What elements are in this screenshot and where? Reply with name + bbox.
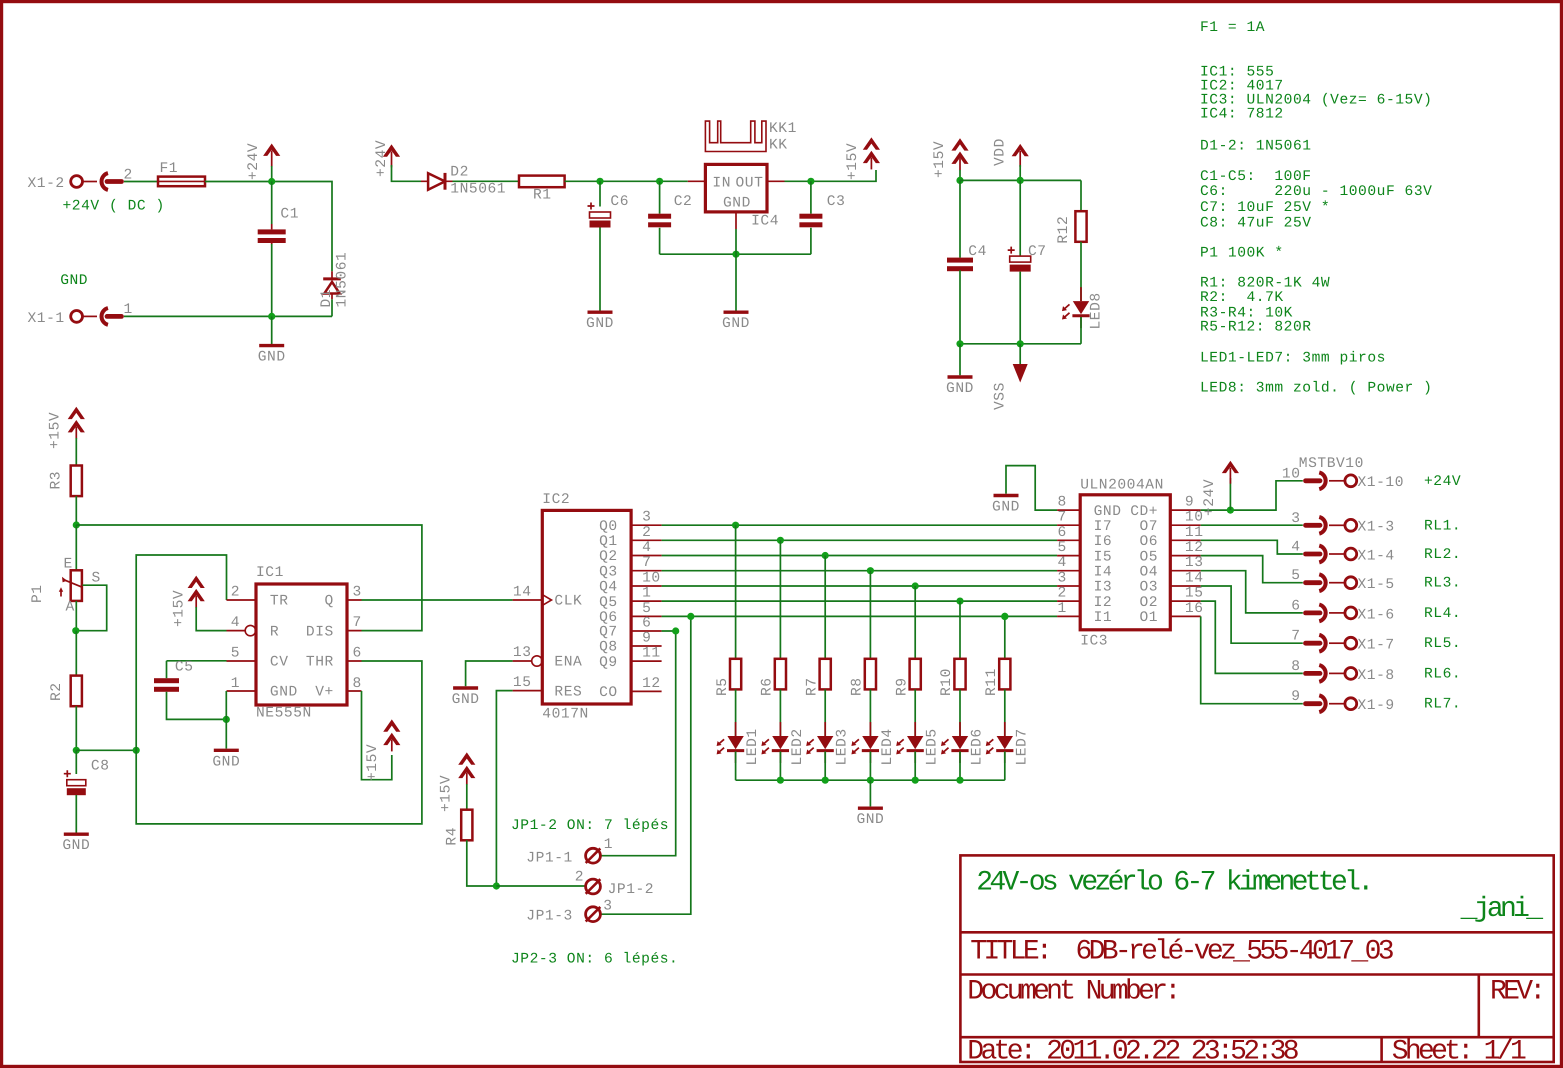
svg-text:11: 11	[1185, 525, 1204, 541]
svg-text:MSTBV10: MSTBV10	[1299, 456, 1364, 472]
svg-text:12: 12	[1185, 540, 1204, 556]
supply +15V arrow (IC1 R)	[171, 576, 204, 627]
wire D1 to GND rail	[331, 299, 333, 316]
svg-text:RL2.: RL2.	[1424, 547, 1461, 563]
wire tap to R10	[959, 601, 961, 659]
svg-text:10: 10	[1185, 510, 1204, 526]
wire C5 bottom to GND node	[167, 692, 227, 720]
wire to R12	[1080, 180, 1082, 211]
svg-text:8: 8	[1291, 659, 1300, 675]
svg-text:15: 15	[1185, 586, 1204, 602]
wire node to C1	[271, 182, 273, 225]
wire gnd rail under IC4	[660, 253, 811, 255]
svg-text:3: 3	[1057, 571, 1066, 587]
wire node to GND symbol	[271, 316, 273, 344]
title block frame	[960, 855, 1553, 1062]
svg-text:1N5061: 1N5061	[335, 252, 351, 308]
wire rail to GND symbol	[869, 780, 871, 806]
junction rail	[956, 777, 963, 784]
wire C4 to rail	[959, 270, 961, 344]
svg-text:14: 14	[513, 584, 532, 600]
svg-text:13: 13	[1185, 555, 1204, 571]
wire R3 to node	[75, 496, 77, 525]
svg-text:6: 6	[353, 646, 362, 662]
wire Q to CLK	[362, 599, 513, 601]
connector X1-8	[1291, 659, 1395, 684]
wire P1 wiper to node	[76, 585, 107, 631]
svg-text:E: E	[64, 557, 73, 573]
svg-text:RL6.: RL6.	[1424, 666, 1461, 682]
wire node to P1	[75, 525, 77, 570]
junction R9 tap	[912, 582, 919, 589]
svg-text:JP1-2 ON: 7 lépés: JP1-2 ON: 7 lépés	[511, 818, 669, 834]
wire C3 to gnd rail	[810, 228, 812, 254]
wire R11 to LED7	[1004, 689, 1006, 736]
svg-text:4: 4	[642, 540, 651, 556]
regulator IC4 7812	[688, 164, 785, 229]
wire IC4 GND pin to rail	[735, 229, 737, 254]
wire node to C4	[959, 180, 961, 257]
wire R10 to LED6	[959, 689, 961, 736]
wire node to C2	[659, 181, 661, 213]
svg-text:3: 3	[353, 584, 362, 600]
svg-text:2: 2	[575, 870, 584, 886]
resistor R8	[850, 659, 876, 696]
wire LED gnd rail	[736, 779, 1005, 781]
svg-text:X1-5: X1-5	[1358, 577, 1395, 593]
LED LED8	[1062, 287, 1105, 329]
potentiometer P1	[30, 557, 101, 616]
svg-text:5: 5	[1057, 540, 1066, 556]
svg-text:C1: C1	[280, 207, 299, 223]
svg-text:R1: 820R-1K 4W: R1: 820R-1K 4W	[1200, 276, 1330, 292]
capacitor C1	[258, 207, 299, 245]
junction R7 tap	[822, 552, 829, 559]
wire ENA to GND	[466, 661, 513, 686]
wire node to C8	[75, 750, 77, 774]
svg-text:+24V ( DC ): +24V ( DC )	[63, 199, 165, 215]
svg-text:R1: R1	[533, 188, 552, 204]
junction R10 tap	[956, 598, 963, 605]
wire node to C6	[599, 181, 601, 206]
svg-text:KK: KK	[769, 137, 788, 153]
svg-text:9: 9	[642, 631, 651, 647]
wire node to R2	[75, 631, 77, 676]
wire +24V arrow stem	[1229, 478, 1231, 510]
svg-text:C5: C5	[175, 660, 194, 676]
junction Q6/JP1-3	[687, 613, 694, 620]
svg-text:LED6: LED6	[970, 728, 986, 765]
svg-text:F1 = 1A: F1 = 1A	[1200, 20, 1265, 36]
driver IC3 ULN2004AN	[1057, 478, 1203, 650]
svg-text:9: 9	[1185, 495, 1194, 511]
svg-text:O2: O2	[1139, 595, 1158, 611]
junction R4/RES/JP1-2	[493, 882, 500, 889]
wire Q3 to I4	[662, 570, 1058, 572]
svg-text:R11: R11	[984, 668, 1000, 696]
resistor R2	[49, 676, 82, 707]
svg-text:Q0: Q0	[599, 519, 618, 535]
svg-text:I6: I6	[1094, 534, 1113, 550]
junction rail	[822, 777, 829, 784]
ground GND (IC4)	[722, 312, 750, 332]
connector X1-2	[27, 167, 132, 192]
svg-text:IC4: 7812: IC4: 7812	[1200, 107, 1284, 123]
svg-text:+15V: +15V	[48, 412, 64, 449]
wire CD+ to +24V node	[1201, 481, 1303, 510]
wire C5 top	[166, 661, 168, 678]
svg-text:JP2-3 ON: 6 lépés.: JP2-3 ON: 6 lépés.	[511, 952, 678, 968]
supply VDD arrow	[992, 138, 1028, 167]
resistor R9	[894, 659, 920, 696]
svg-text:C7: C7	[1028, 244, 1047, 260]
wire R6 to LED2	[779, 689, 781, 736]
svg-text:IC2: IC2	[542, 492, 570, 508]
supply +24V arrow (input)	[246, 143, 280, 180]
svg-text:C6: 220u - 1000uF 63V: C6: 220u - 1000uF 63V	[1200, 184, 1432, 200]
svg-text:O7: O7	[1139, 519, 1158, 535]
svg-text:Q6: Q6	[599, 610, 618, 626]
svg-text:GND: GND	[258, 350, 286, 366]
svg-text:JP1-3: JP1-3	[526, 909, 573, 925]
svg-text:13: 13	[513, 645, 532, 661]
ground GND (top-left)	[258, 346, 286, 366]
svg-text:O4: O4	[1139, 564, 1158, 580]
svg-text:R2: 4.7K: R2: 4.7K	[1200, 290, 1284, 306]
counter IC2 4017N	[513, 492, 662, 723]
junction rail C4	[956, 340, 963, 347]
wire R1 to IC4 IN	[565, 180, 688, 182]
svg-text:O3: O3	[1139, 580, 1158, 596]
svg-text:Q7: Q7	[599, 625, 618, 641]
wire +24V to D2	[392, 165, 422, 181]
svg-text:X1-6: X1-6	[1358, 607, 1395, 623]
connector X1-1	[27, 302, 132, 327]
svg-text:A: A	[66, 600, 75, 616]
svg-text:IC3: IC3	[1080, 634, 1108, 650]
svg-text:C3: C3	[827, 194, 846, 210]
svg-text:GND: GND	[212, 754, 240, 770]
diode D1 1N5061	[319, 252, 351, 308]
svg-text:+15V: +15V	[438, 775, 454, 812]
junction CD+/+24V	[1227, 507, 1234, 514]
wire R4 to jumper node	[467, 840, 497, 886]
ground GND (ENA)	[452, 688, 480, 708]
svg-text:_jani_: _jani_	[1460, 894, 1544, 925]
wire O2 to X1-8	[1201, 601, 1303, 673]
supply VSS arrow	[992, 364, 1027, 410]
svg-text:I4: I4	[1094, 564, 1113, 580]
svg-text:I7: I7	[1094, 519, 1113, 535]
svg-text:RES: RES	[554, 684, 582, 700]
capacitor C5	[154, 660, 194, 692]
heatsink KK1	[705, 121, 797, 154]
svg-text:1: 1	[642, 586, 651, 602]
wire tap to R5	[735, 525, 737, 659]
wire node to loop	[76, 749, 136, 751]
ground GND (LED array)	[856, 808, 884, 828]
svg-text:15: 15	[513, 675, 532, 691]
svg-text:R3: R3	[49, 471, 65, 490]
junction +24V node	[268, 178, 275, 185]
svg-text:4: 4	[231, 615, 240, 631]
ground GND (IC3)	[992, 496, 1020, 516]
wire LED4 to rail	[869, 751, 871, 780]
junction rail	[777, 777, 784, 784]
junction wiper node	[72, 627, 79, 634]
svg-text:R4: R4	[445, 827, 461, 846]
resistor R4	[445, 810, 473, 846]
wire R8 to LED4	[869, 689, 871, 736]
wire R7 to LED3	[824, 689, 826, 736]
wire C1 to GND node	[271, 244, 273, 316]
wire GND rail top-left	[124, 315, 332, 317]
junction GND node	[268, 313, 275, 320]
junction R11 tap	[1001, 613, 1008, 620]
svg-text:GND: GND	[992, 500, 1020, 516]
svg-text:CLK: CLK	[554, 594, 582, 610]
resistor R12	[1056, 211, 1086, 243]
supply +15V arrow (R3)	[48, 407, 85, 449]
ground GND (IC1)	[212, 750, 240, 770]
fuse F1	[158, 161, 205, 186]
wire Q5 to I2	[662, 600, 1058, 602]
resistor R7	[804, 659, 830, 696]
wire O4 to X1-6	[1201, 571, 1303, 613]
wire R5 to LED1	[735, 689, 737, 736]
svg-text:4017N: 4017N	[542, 707, 589, 723]
svg-text:7: 7	[642, 555, 651, 571]
wire Q6 to JP1-3 riser	[600, 616, 690, 914]
junction loop tap	[133, 747, 140, 754]
svg-text:6: 6	[642, 616, 651, 632]
wire LED2 to rail	[779, 751, 781, 780]
svg-text:1: 1	[231, 676, 240, 692]
svg-text:P1: P1	[30, 584, 46, 603]
wire tap to R8	[869, 571, 871, 659]
LED LED4	[851, 722, 896, 766]
svg-text:LED7: LED7	[1014, 728, 1030, 765]
wire tap to R7	[824, 556, 826, 659]
svg-text:O5: O5	[1139, 549, 1158, 565]
junction R6 tap	[777, 537, 784, 544]
wire Q7 to JP1-1 riser	[600, 631, 675, 856]
svg-text:16: 16	[1185, 601, 1204, 617]
wire tap to R6	[779, 540, 781, 659]
svg-text:VSS: VSS	[992, 382, 1008, 410]
svg-text:X1-8: X1-8	[1358, 668, 1395, 684]
svg-text:LED8: 3mm zold. ( Power ): LED8: 3mm zold. ( Power )	[1200, 381, 1432, 397]
supply +15V arrow (C4)	[932, 138, 969, 178]
junction +15V/C4	[956, 177, 963, 184]
svg-text:3: 3	[1291, 511, 1300, 527]
connector X1-5	[1291, 568, 1395, 593]
svg-text:O1: O1	[1139, 610, 1158, 626]
svg-text:5: 5	[231, 646, 240, 662]
svg-text:C8: 47uF 25V: C8: 47uF 25V	[1200, 215, 1312, 231]
wire node to GND symbol	[225, 719, 227, 748]
resistor R1	[519, 176, 565, 204]
svg-text:R10: R10	[939, 668, 955, 696]
wire C7 to rail	[1019, 272, 1021, 344]
svg-text:Q1: Q1	[599, 534, 618, 550]
connector X1-6	[1291, 598, 1395, 623]
svg-text:2: 2	[231, 584, 240, 600]
wire Q1 to I6	[662, 539, 1058, 541]
svg-text:DIS: DIS	[306, 624, 334, 640]
wire D2 to R1	[453, 180, 520, 182]
ground GND (C8)	[62, 834, 90, 854]
wire R9 to LED5	[914, 689, 916, 736]
junction VDD/C7	[1017, 177, 1024, 184]
svg-text:1N5061: 1N5061	[450, 182, 506, 198]
svg-text:R6: R6	[760, 677, 776, 696]
svg-text:5: 5	[642, 601, 651, 617]
svg-text:8: 8	[1057, 495, 1066, 511]
svg-text:12: 12	[642, 676, 661, 692]
connector X1-10	[1282, 466, 1404, 491]
wire R pin to +15V	[196, 607, 226, 631]
svg-text:10: 10	[1282, 466, 1301, 482]
svg-text:GND: GND	[270, 685, 298, 701]
svg-text:11: 11	[642, 646, 661, 662]
svg-text:LED8: LED8	[1089, 292, 1105, 329]
capacitor C7	[1008, 244, 1047, 272]
wire node to C3	[810, 181, 812, 213]
wire R2 to C8 node	[75, 706, 77, 750]
junction R5 tap	[732, 522, 739, 529]
wire rail to VSS	[1019, 344, 1021, 364]
svg-text:Date: 2011.02.22 23:52:38: Date: 2011.02.22 23:52:38	[967, 1037, 1297, 1068]
junction rail VSS	[1017, 340, 1024, 347]
svg-text:+24V: +24V	[1424, 474, 1461, 490]
svg-text:IC4: IC4	[751, 213, 779, 229]
junction C3 node	[807, 178, 814, 185]
svg-text:TITLE: 6DB-relé-vez_555-4017_: TITLE: 6DB-relé-vez_555-4017_03	[970, 937, 1393, 968]
wire Q2 to I5	[662, 555, 1058, 557]
svg-text:C7: 10uF 25V *: C7: 10uF 25V *	[1200, 200, 1330, 216]
wire rail to GND symbol	[735, 254, 737, 310]
LED LED6	[941, 722, 986, 766]
wire C8 to GND	[75, 795, 77, 833]
svg-text:RL7.: RL7.	[1424, 697, 1461, 713]
svg-text:X1-9: X1-9	[1358, 698, 1395, 714]
svg-text:Q9: Q9	[599, 655, 618, 671]
wire Q4 to I3	[662, 585, 1058, 587]
supply +24V arrow (CD+)	[1202, 461, 1239, 516]
junction C6 node	[596, 178, 603, 185]
svg-text:10: 10	[642, 571, 661, 587]
svg-text:1: 1	[1057, 601, 1066, 617]
svg-text:X1-4: X1-4	[1358, 548, 1395, 564]
svg-text:RL3.: RL3.	[1424, 576, 1461, 592]
wire Q0 to I7	[662, 524, 1058, 526]
wire IC3 pin8 to GND	[1006, 466, 1057, 511]
svg-text:I1: I1	[1094, 610, 1113, 626]
wire node to JP1-2	[496, 885, 585, 887]
capacitor C3	[799, 194, 845, 227]
capacitor C6	[588, 194, 630, 228]
svg-text:C2: C2	[674, 194, 693, 210]
supply +15V arrow (R4)	[438, 752, 475, 812]
junction IC4 GND	[732, 251, 739, 258]
connector X1-3	[1291, 511, 1395, 536]
svg-text:ULN2004AN: ULN2004AN	[1080, 478, 1164, 494]
svg-text:I2: I2	[1094, 595, 1113, 611]
svg-text:S: S	[92, 571, 101, 587]
wire V+ to +15V	[362, 691, 392, 780]
svg-text:Document Number:: Document Number:	[967, 977, 1177, 1008]
svg-text:+24V: +24V	[246, 143, 262, 180]
svg-text:C1-C5: 100F: C1-C5: 100F	[1200, 169, 1312, 185]
junction rail	[867, 777, 874, 784]
svg-text:JP1-2: JP1-2	[608, 882, 655, 898]
svg-text:GND: GND	[946, 381, 974, 397]
wire tap to R11	[1004, 616, 1006, 658]
resistor R5	[715, 659, 741, 696]
svg-text:R5: R5	[715, 677, 731, 696]
resistor R11	[984, 659, 1010, 696]
svg-text:NE555N: NE555N	[256, 706, 312, 722]
timer IC1 NE555N	[227, 565, 362, 722]
svg-text:7: 7	[353, 615, 362, 631]
wire P1 bottom	[75, 601, 77, 631]
junction R2/C8	[73, 747, 80, 754]
wire O3 to X1-7	[1201, 586, 1303, 643]
svg-text:D1-2: 1N5061: D1-2: 1N5061	[1200, 139, 1312, 155]
svg-text:4: 4	[1291, 540, 1300, 556]
LED LED2	[761, 722, 806, 766]
capacitor C8	[64, 758, 110, 795]
LED LED3	[806, 722, 851, 766]
svg-text:R8: R8	[850, 677, 866, 696]
svg-text:3: 3	[603, 899, 612, 915]
svg-text:LED2: LED2	[790, 728, 806, 765]
wire LED1 to rail	[735, 751, 737, 780]
wire +15V to R4	[466, 784, 468, 810]
svg-text:Q3: Q3	[599, 564, 618, 580]
svg-text:14: 14	[1185, 571, 1204, 587]
supply +24V arrow (regulator)	[374, 140, 400, 177]
wire TR-THR loop	[136, 555, 422, 824]
svg-text:C6: C6	[610, 194, 629, 210]
svg-text:V+: V+	[315, 685, 334, 701]
svg-text:GND: GND	[586, 316, 614, 332]
wire CV to C5	[167, 660, 227, 662]
svg-text:Q4: Q4	[599, 580, 618, 596]
LED LED7	[986, 722, 1031, 766]
svg-text:6: 6	[1057, 525, 1066, 541]
svg-text:LED4: LED4	[880, 728, 896, 765]
wire C6 to GND	[599, 228, 601, 311]
wire LED3 to rail	[824, 751, 826, 780]
svg-text:6: 6	[1291, 598, 1300, 614]
svg-text:+15V: +15V	[365, 744, 381, 781]
svg-text:R12: R12	[1056, 216, 1072, 244]
svg-text:RL5.: RL5.	[1424, 636, 1461, 652]
svg-text:+15V: +15V	[932, 141, 948, 178]
wire R12 to LED8	[1080, 242, 1082, 301]
wire C2 to gnd rail	[659, 228, 661, 254]
svg-text:X1-1: X1-1	[27, 311, 64, 327]
svg-text:1: 1	[604, 837, 613, 853]
svg-text:LED5: LED5	[925, 728, 941, 765]
svg-text:R2: R2	[49, 682, 65, 701]
svg-text:IC1: IC1	[256, 565, 284, 581]
svg-text:5: 5	[1291, 568, 1300, 584]
junction Q7/JP1-1	[672, 627, 679, 634]
svg-text:P1 100K *: P1 100K *	[1200, 246, 1284, 262]
